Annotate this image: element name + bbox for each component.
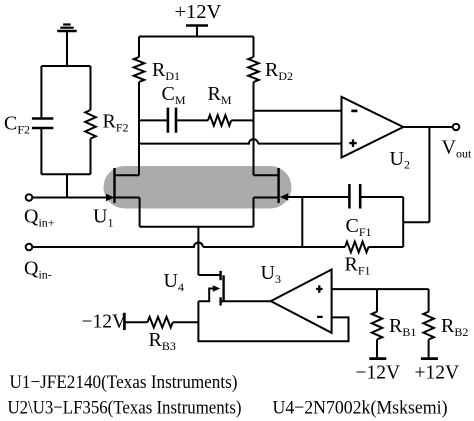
svg-text:−12V: −12V <box>356 363 401 384</box>
svg-text:U2\U3−LF356(Texas Instruments): U2\U3−LF356(Texas Instruments) <box>8 398 242 419</box>
svg-text:U4−2N7002k(Msksemi): U4−2N7002k(Msksemi) <box>273 398 448 419</box>
svg-text:−12V: −12V <box>82 312 127 333</box>
svg-text:+12V: +12V <box>175 1 222 23</box>
svg-text:+12V: +12V <box>415 363 460 384</box>
svg-text:U1−JFE2140(Texas Instruments): U1−JFE2140(Texas Instruments) <box>10 372 238 393</box>
